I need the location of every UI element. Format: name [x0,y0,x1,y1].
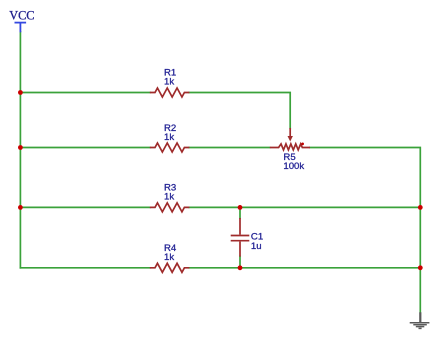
svg-text:100k: 100k [283,161,304,172]
svg-text:1k: 1k [164,252,174,263]
svg-text:1k: 1k [164,132,174,143]
svg-text:1k: 1k [164,77,174,88]
svg-text:1u: 1u [251,241,262,252]
svg-text:1k: 1k [164,192,174,203]
svg-text:VCC: VCC [9,9,34,23]
